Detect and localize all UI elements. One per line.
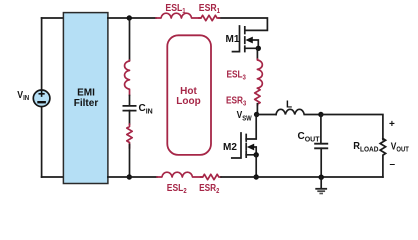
node junction bottom CIN tap — [127, 174, 132, 179]
capacitor COUT — [314, 115, 328, 178]
wire VSW to L — [257, 114, 276, 116]
node M1 source junction — [256, 46, 261, 51]
svg-text:L: L — [286, 99, 292, 110]
voltage source VIN — [33, 90, 50, 107]
wire top-left rail — [42, 17, 64, 19]
svg-text:+: + — [389, 119, 395, 130]
resistor parasitic ESR of CIN branch — [127, 124, 132, 148]
node junction top CIN tap — [127, 15, 132, 20]
wire M2 source to bottom rail — [255, 155, 257, 177]
node ground junction — [319, 175, 324, 180]
inductor ESL1 — [156, 13, 201, 18]
resistor RLOAD — [380, 139, 385, 178]
svg-text:M2: M2 — [223, 142, 237, 153]
resistor ESR3 — [255, 88, 260, 105]
inductor parasitic ESL of CIN branch — [125, 60, 130, 96]
resistor ESR2 — [200, 174, 221, 179]
transistor M2 — [232, 115, 256, 159]
inductor L — [276, 109, 321, 114]
capacitor CIN — [123, 106, 137, 124]
EMI filter block — [63, 13, 108, 184]
ground — [315, 177, 327, 193]
wire bottom rail right segment — [221, 176, 383, 178]
hot loop boundary — [167, 35, 211, 155]
wire CIN mid — [129, 96, 131, 106]
wire left branch (VIN vertical) — [41, 18, 43, 177]
wire CIN branch upper — [129, 18, 131, 60]
svg-text:M1: M1 — [226, 34, 240, 45]
resistor ESR1 — [199, 15, 220, 20]
wire ESR3 to VSW — [256, 104, 258, 115]
svg-text:Filter: Filter — [74, 98, 99, 109]
wire M1 source to ESL3 — [256, 48, 258, 59]
transistor M1 — [233, 26, 259, 52]
wire bottom-left rail — [42, 176, 64, 178]
inductor ESL3 — [257, 59, 262, 88]
wire top rail — [108, 17, 156, 19]
node M2 source junction — [254, 152, 259, 157]
inductor ESL2 — [157, 172, 203, 177]
wire top rail right segment to M1 drain — [219, 18, 267, 30]
node VSW — [254, 112, 259, 117]
wire CIN branch lower — [129, 145, 131, 178]
svg-text:Loop: Loop — [176, 96, 200, 107]
wire output top rail — [321, 115, 383, 140]
wire bottom rail left segment — [108, 176, 157, 178]
node L output junction — [318, 112, 323, 117]
node M2 bottom rail junction — [254, 174, 259, 179]
svg-text:–: – — [390, 159, 396, 170]
